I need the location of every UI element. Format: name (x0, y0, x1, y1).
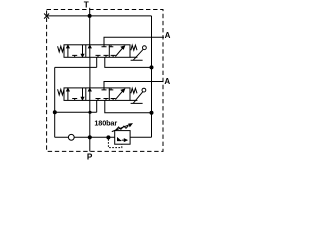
wire: supply riser left (54, 67, 56, 137)
junction: riser / V2 feed (53, 111, 56, 114)
wire: V1 tank stub (105, 57, 152, 67)
wire: V2 feed stub (96, 100, 98, 112)
valve V2 lever (133, 92, 143, 104)
valve V2 up-arrow left cell (67, 88, 70, 100)
valve V2 position divider 1 (85, 88, 87, 101)
wire: relief outlet (130, 136, 151, 138)
wire: V2 feed line below (55, 111, 97, 113)
junction: bus / T line (88, 14, 91, 17)
svg-text:T: T (84, 1, 89, 10)
valve V2 right spring (131, 88, 137, 93)
relief valve RV1 adjustment arrow (112, 124, 132, 132)
valve V2 position divider 2 (108, 88, 110, 101)
valve V2 blocked port top right cell (109, 88, 114, 90)
junction: pilot tap (107, 136, 110, 139)
valve V1 blocked port bottom center (96, 55, 101, 57)
valve V1 divider line mid (89, 45, 92, 57)
wire: pump bottom line (55, 136, 115, 138)
plugged port X (44, 14, 49, 19)
wire: V1 tank feed from bus (89, 16, 91, 45)
relief valve RV1 pilot dashed line (108, 139, 121, 148)
junction: P riser / bottom line (88, 136, 91, 139)
valve V2 blocked port bottom right cell (111, 99, 116, 101)
valve V1 body (64, 45, 130, 58)
wire: T port line (89, 8, 91, 16)
valve V1 blocked port top A (102, 45, 107, 47)
valve V1 blocked port bottom left cell (72, 55, 77, 57)
inline circle component (68, 134, 74, 140)
valve V1 right spring (131, 45, 137, 50)
wire: right tank return (151, 16, 153, 137)
wire: V2 tank stub (105, 100, 152, 112)
valve V1 crossed-flow arrow (115, 46, 124, 57)
junction: tank return upper (150, 66, 153, 69)
relief valve RV1 spring (116, 126, 129, 130)
valve V1 lever knob (143, 46, 147, 50)
valve V1 lever pivot base (130, 57, 143, 60)
svg-text:P: P (87, 152, 93, 160)
wire: V1 feed line below (55, 66, 97, 68)
valve V1 lever (133, 49, 143, 60)
valve V2 body (64, 88, 130, 101)
valve V2 blocked port bottom center (96, 99, 101, 101)
valve V1 position divider 1 (85, 45, 87, 58)
relief valve RV1 internal flow arrow (118, 137, 127, 141)
valve V1 down-arrow left cell (81, 45, 84, 57)
junction: tank return lower (150, 111, 153, 114)
valve V1 left spring (58, 46, 64, 52)
valve V2 lever pivot base (130, 100, 143, 103)
wire: carryover V1 to V2 (89, 57, 91, 88)
valve V1 blocked port top right cell (109, 45, 114, 47)
valve V2 crossed-flow arrow (115, 89, 124, 100)
enclosure dashed boundary (47, 10, 163, 152)
svg-text:A: A (165, 31, 171, 40)
valve V1 position divider 2 (108, 45, 110, 58)
valve V2 down-arrow left cell (81, 88, 84, 100)
valve V1 blocked port bottom right cell (111, 55, 116, 57)
wire: pump line P riser (89, 100, 91, 151)
valve V2 up-arrow center cell (89, 88, 92, 100)
valve V2 blocked port top A (102, 88, 107, 90)
valve V2 lever knob (142, 88, 146, 92)
junction: P riser / V2 feed (89, 111, 91, 113)
wire: V1 feed stub (96, 57, 98, 67)
valve V2 blocked port bottom left cell (72, 99, 77, 101)
valve V1 up-arrow left cell (67, 45, 70, 57)
relief valve RV1 body (115, 131, 130, 145)
wire: A2 work line (104, 82, 164, 88)
valve V1 blocked port bottom center2 (104, 55, 109, 57)
wire: tank bus (47, 15, 152, 17)
valve V2 blocked port bottom center2 (104, 99, 109, 101)
valve V2 left spring (58, 89, 64, 95)
wire: A1 work line (104, 37, 164, 45)
svg-text:A: A (164, 77, 170, 86)
svg-text:180bar: 180bar (94, 118, 117, 127)
